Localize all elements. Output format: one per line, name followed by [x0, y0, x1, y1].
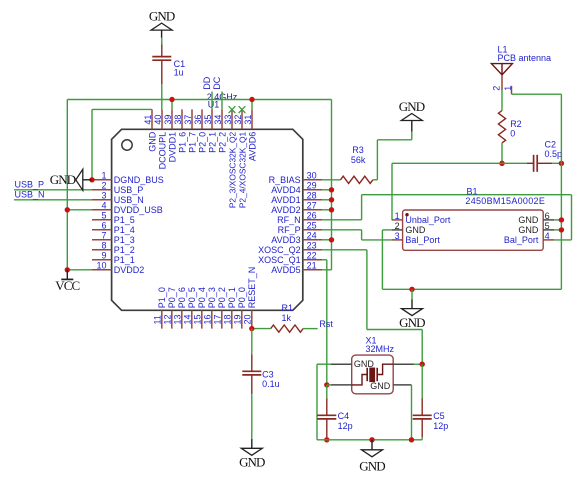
U1 pin 6 (P1_4): [92, 221, 135, 235]
resistor R2: [498, 111, 521, 143]
junction pin 1 DGND_BUS: [89, 177, 94, 182]
U1 pin 24 (AVDD3): [271, 231, 322, 245]
U1 pin 3 (USB_N): [92, 191, 144, 205]
svg-text:1: 1: [101, 171, 106, 181]
U1 pin 36 (P2_0): [193, 109, 208, 152]
svg-text:10: 10: [96, 261, 106, 271]
U1 pin 29 (AVDD4): [271, 181, 322, 195]
svg-text:RF_N: RF_N: [277, 215, 301, 225]
svg-text:P2_2: P2_2: [217, 132, 227, 153]
svg-text:GND: GND: [149, 9, 175, 24]
B1 pin 3 (Bal_Port): [392, 231, 441, 245]
wire AVDD vertical rail: [331, 100, 333, 270]
svg-text:12p: 12p: [338, 421, 353, 431]
svg-text:PCB antenna: PCB antenna: [498, 53, 552, 63]
wire C4 to rail: [326, 437, 328, 440]
svg-text:GND: GND: [359, 459, 385, 474]
B1 pin 2 (GND): [392, 221, 426, 235]
junction pin 39: [169, 97, 174, 102]
U1 pin 34 (P2_2): [213, 109, 228, 152]
wire X1 bottom-right GND: [411, 385, 413, 440]
svg-text:P0_5: P0_5: [187, 287, 197, 308]
wire USB_P: [14, 189, 92, 191]
svg-text:P1_0: P1_0: [157, 287, 167, 308]
svg-text:24: 24: [307, 231, 317, 241]
svg-text:1: 1: [503, 86, 513, 91]
svg-text:11: 11: [153, 315, 163, 324]
svg-text:P0_7: P0_7: [167, 287, 177, 308]
svg-text:4: 4: [101, 201, 106, 211]
wire XOSC_Q2 (pin 23) to X1: [322, 249, 367, 251]
svg-text:DVDD_USB: DVDD_USB: [114, 205, 163, 215]
svg-text:AVDD1: AVDD1: [271, 195, 300, 205]
svg-text:41: 41: [143, 115, 153, 125]
svg-text:P2_0: P2_0: [197, 132, 207, 153]
svg-text:C4: C4: [338, 411, 350, 421]
B1 pin 6 (GND): [518, 211, 554, 225]
wire crystal bottom rail: [317, 439, 422, 441]
junction pin 20: [249, 326, 254, 331]
svg-text:36: 36: [193, 115, 203, 125]
B1 pin 5 (GND): [518, 221, 554, 235]
svg-text:VCC: VCC: [55, 278, 79, 293]
wire AVDD to pin 28 AVDD1: [322, 199, 331, 201]
svg-text:39: 39: [163, 115, 173, 125]
svg-text:12: 12: [163, 314, 173, 324]
svg-text:3: 3: [395, 231, 400, 241]
ground (B1 mid): [399, 289, 425, 330]
wire AVDD to pin 27 AVDD2: [322, 209, 331, 211]
svg-text:R_BIAS: R_BIAS: [269, 175, 301, 185]
svg-text:40: 40: [153, 115, 163, 125]
wire X1 bottom-left stub: [327, 384, 331, 386]
svg-text:P0_1: P0_1: [227, 287, 237, 308]
svg-text:DVDD1: DVDD1: [167, 132, 177, 163]
U1 pin 19 (P0_0): [233, 287, 248, 328]
wire B1 pins 6,5 GND vertical: [560, 94, 562, 289]
U1 pin 17 (P0_2): [213, 287, 228, 328]
svg-text:9: 9: [101, 251, 106, 261]
svg-text:1: 1: [395, 211, 400, 221]
svg-text:DCOUPL: DCOUPL: [157, 132, 167, 170]
svg-text:GND: GND: [147, 131, 157, 152]
svg-text:26: 26: [307, 211, 317, 221]
junction AVDD pin 29: [329, 187, 334, 192]
svg-text:P0_2: P0_2: [217, 287, 227, 308]
svg-text:28: 28: [307, 191, 317, 201]
wire RF_N (pin 26) to B1 pin 4: [322, 219, 361, 221]
svg-text:31: 31: [243, 115, 253, 125]
svg-text:6: 6: [101, 221, 106, 231]
ground top (above C1): [149, 9, 175, 38]
svg-text:20: 20: [243, 314, 253, 324]
U1 pin 7 (P1_3): [92, 231, 135, 245]
svg-text:GND: GND: [405, 225, 426, 235]
U1 pin 39 (DVDD1): [163, 109, 178, 162]
B1 pin 1 (Unbal_Port): [392, 211, 451, 225]
X1 pin GND bottom-right: [370, 381, 411, 391]
wire to pin 4 DVDD_USB: [67, 209, 92, 211]
X1 pin bottom-left (XOSC_Q1): [331, 384, 352, 386]
svg-text:38: 38: [173, 115, 183, 125]
capacitor C5: [413, 399, 449, 438]
svg-text:GND: GND: [518, 215, 539, 225]
svg-text:12p: 12p: [433, 421, 448, 431]
U1 pin 22 (XOSC_Q1): [258, 251, 322, 265]
balun B1 body: [403, 210, 544, 250]
ground (R3): [399, 99, 425, 132]
svg-text:GND: GND: [50, 172, 76, 187]
svg-text:XOSC_Q1: XOSC_Q1: [258, 255, 301, 265]
junction AVDD pin 27: [329, 207, 334, 212]
svg-text:AVDD3: AVDD3: [271, 235, 300, 245]
svg-text:GND: GND: [370, 381, 391, 391]
U1 pin 1 (DGND_BUS): [92, 171, 164, 185]
wire RF to B1 pin 1: [391, 163, 393, 220]
svg-text:37: 37: [183, 115, 193, 125]
svg-text:GND: GND: [399, 99, 425, 114]
U1 pin 2 (USB_P): [92, 181, 143, 195]
svg-text:30: 30: [307, 171, 317, 181]
svg-text:34: 34: [213, 115, 223, 125]
U1 pin 41 (GND): [143, 109, 158, 151]
U1 pin 38 (P1_6): [173, 109, 188, 152]
wire R3 to GND bend: [373, 179, 377, 181]
wire C1 to pin 40 DCOUPL: [161, 84, 163, 109]
svg-text:5: 5: [545, 221, 550, 231]
junction pin 10 / VCC: [65, 267, 70, 272]
svg-text:P1_6: P1_6: [177, 132, 187, 153]
wire B1 pin 2 to GND: [382, 229, 391, 231]
capacitor C4: [317, 399, 352, 438]
svg-text:USB_P: USB_P: [114, 185, 144, 195]
capacitor C2: [527, 140, 562, 172]
U1 pin 8 (P1_2): [92, 241, 135, 255]
svg-text:5: 5: [101, 211, 106, 221]
svg-text:P1_5: P1_5: [114, 215, 135, 225]
svg-text:DGND_BUS: DGND_BUS: [114, 175, 164, 185]
U1 pin 5 (P1_5): [92, 211, 135, 225]
capacitor C1: [152, 45, 185, 85]
U1 pin 18 (P0_1): [223, 287, 238, 328]
wire R_BIAS to R3: [322, 179, 340, 181]
svg-text:14: 14: [183, 314, 193, 324]
svg-text:32: 32: [233, 115, 243, 125]
junction C2 right: [559, 161, 564, 166]
svg-text:AVDD6: AVDD6: [247, 132, 257, 161]
svg-text:35: 35: [203, 115, 213, 125]
svg-text:1k: 1k: [282, 313, 292, 323]
svg-text:8: 8: [101, 241, 106, 251]
wire drop to pin 31 AVDD6: [251, 100, 253, 110]
U1 pin 35 (P2_1): [203, 109, 218, 152]
svg-text:18: 18: [223, 314, 233, 324]
svg-text:Rst: Rst: [319, 319, 333, 329]
wire L1 pin 2 to R2: [501, 90, 503, 111]
svg-text:C5: C5: [433, 411, 445, 421]
svg-text:R3: R3: [352, 145, 364, 155]
svg-text:0.5p: 0.5p: [545, 149, 563, 159]
crystal X1 body: [352, 355, 394, 394]
wire C3 to GND: [251, 394, 253, 439]
U1 pin 13 (P0_6): [173, 287, 188, 328]
wire C2 to GND vertical: [552, 162, 561, 164]
U1 pin 11 (P1_0): [153, 287, 168, 328]
svg-text:19: 19: [233, 314, 243, 324]
svg-text:R1: R1: [282, 303, 294, 313]
svg-text:29: 29: [307, 181, 317, 191]
svg-text:U1: U1: [208, 99, 220, 109]
svg-text:P0_4: P0_4: [197, 287, 207, 308]
svg-text:22: 22: [307, 251, 317, 261]
wire GND to C1: [161, 38, 163, 45]
svg-text:P2_1: P2_1: [207, 132, 217, 153]
svg-text:C3: C3: [262, 369, 274, 379]
wire AVDD to pin 29 AVDD4: [322, 189, 331, 191]
svg-text:0.1u: 0.1u: [262, 379, 280, 389]
U1 pin 14 (P0_5): [183, 287, 198, 328]
wire VDD top rail: [67, 99, 331, 101]
svg-text:7: 7: [101, 231, 106, 241]
svg-text:6: 6: [545, 211, 550, 221]
svg-text:USB_N: USB_N: [114, 195, 144, 205]
svg-text:P1_1: P1_1: [114, 255, 135, 265]
U1 pin 4 (DVDD_USB): [92, 201, 163, 215]
wire pin 41 GND horizontal: [92, 108, 152, 110]
junction rail X1 case: [409, 437, 414, 442]
svg-text:32MHz: 32MHz: [366, 344, 395, 354]
U1 pin 12 (P0_7): [163, 287, 178, 328]
svg-text:DC: DC: [212, 76, 222, 89]
wire XOSC_Q2 to C5: [421, 364, 423, 398]
svg-text:P1_4: P1_4: [114, 225, 135, 235]
junction R2/RF: [499, 161, 504, 166]
B1 pin 4 (Bal_Port): [504, 231, 554, 245]
resistor R1: [271, 303, 303, 332]
junction GND mid: [409, 287, 414, 292]
wire AVDD to pin 24 AVDD3: [322, 239, 331, 241]
svg-text:Bal_Port: Bal_Port: [504, 235, 539, 245]
svg-text:2: 2: [395, 221, 400, 231]
ground (C3): [239, 439, 265, 470]
svg-text:P2_4/XOSC32K_Q1: P2_4/XOSC32K_Q1: [237, 131, 247, 208]
U1 pin 37 (P1_7): [183, 109, 198, 152]
U1 pin 25 (RF_P): [278, 221, 323, 235]
U1 pin 9 (P1_1): [92, 251, 135, 265]
svg-text:P0_0: P0_0: [237, 287, 247, 308]
X1 pin top-right (XOSC_Q2): [393, 363, 414, 365]
svg-text:2: 2: [491, 86, 501, 91]
svg-text:Unbal_Port: Unbal_Port: [405, 215, 451, 225]
junction pin 4: [65, 207, 70, 212]
U1 pin 21 (AVDD5): [271, 261, 322, 275]
U1 pin 31 (AVDD6): [243, 109, 258, 161]
wire VCC vertical drop: [66, 100, 68, 270]
wire RF node rail: [392, 162, 527, 164]
antenna L1 (PCB antenna): [491, 45, 551, 95]
no-connect cross pin 32: [239, 106, 246, 113]
junction X1/C5: [420, 362, 425, 367]
svg-text:13: 13: [173, 314, 183, 324]
svg-text:33: 33: [223, 115, 233, 125]
wire drop to pin 39 DVDD1: [171, 100, 173, 110]
U1 pin 30 (R_BIAS): [269, 171, 323, 185]
wire pin 41 GND vertical: [91, 109, 93, 179]
IC U1 body (CC2540 QFN outline): [112, 129, 303, 310]
no-connect cross pin 33: [229, 106, 236, 113]
wire X1 top-left GND: [317, 363, 331, 365]
svg-text:GND: GND: [518, 225, 539, 235]
resistor R3: [341, 145, 373, 183]
svg-text:GND: GND: [354, 359, 375, 369]
svg-text:GND: GND: [399, 315, 425, 330]
svg-text:15: 15: [193, 314, 203, 324]
U1 pin 10 (DVDD2): [92, 261, 144, 275]
U1 pin 33 (P2_3/XOSC32K_Q2): [223, 109, 238, 208]
U1 pin 15 (P0_4): [193, 287, 208, 328]
wire X1 top-right to C5: [414, 363, 422, 365]
svg-text:56k: 56k: [351, 155, 366, 165]
U1 pin 40 (DCOUPL): [153, 109, 168, 169]
svg-text:DVDD2: DVDD2: [114, 265, 145, 275]
wire L1 pin 1 to GND net: [512, 93, 562, 95]
svg-text:RF_P: RF_P: [278, 225, 301, 235]
svg-text:1u: 1u: [174, 68, 184, 78]
wire RF_P (pin 25) to B1 pin 3: [322, 229, 361, 231]
ground (crystal rail): [359, 440, 385, 474]
wire XOSC_Q1 (pin 22) to X1: [322, 259, 327, 261]
svg-text:17: 17: [213, 314, 223, 324]
svg-text:B1: B1: [467, 186, 478, 196]
X1 crystal element: [352, 364, 394, 385]
svg-text:RESET_N: RESET_N: [247, 267, 257, 309]
svg-text:DD: DD: [202, 76, 212, 89]
svg-text:P1_2: P1_2: [114, 245, 135, 255]
svg-text:AVDD5: AVDD5: [271, 265, 300, 275]
wire DC (pin 34): [221, 92, 223, 110]
U1 pin 16 (P0_3): [203, 287, 218, 328]
U1 pin 20 (RESET_N): [243, 267, 258, 329]
wire R2 to RF node: [501, 143, 503, 163]
svg-text:P0_3: P0_3: [207, 287, 217, 308]
svg-text:Bal_Port: Bal_Port: [405, 235, 440, 245]
svg-text:21: 21: [307, 261, 317, 271]
svg-text:25: 25: [307, 221, 317, 231]
wire to pin 10 DVDD2: [67, 269, 92, 271]
wire DD (pin 35): [211, 92, 213, 110]
wire C5 to rail: [421, 437, 423, 440]
wire AVDD to pin 21 AVDD5: [322, 269, 331, 271]
U1 pin 23 (XOSC_Q2): [258, 241, 322, 255]
junction X1 bottom-left: [324, 382, 329, 387]
junction AVDD pin 28: [329, 197, 334, 202]
junction AVDD pin 24: [329, 237, 334, 242]
U1 pin 27 (AVDD2): [271, 201, 322, 215]
svg-text:R2: R2: [510, 119, 522, 129]
svg-text:27: 27: [307, 201, 317, 211]
svg-text:USB_P: USB_P: [15, 180, 45, 190]
U1 pin 26 (RF_N): [277, 211, 322, 225]
capacitor C3: [242, 354, 279, 394]
svg-text:23: 23: [307, 241, 317, 251]
junction B1 pin 6: [559, 217, 564, 222]
junction B1 pin 5: [559, 227, 564, 232]
U1 pin 28 (AVDD1): [271, 191, 322, 205]
svg-text:C2: C2: [545, 140, 557, 150]
junction C4: [324, 437, 329, 442]
ground left (DGND_BUS pin 1): [50, 169, 92, 190]
wire R1 to Rst: [303, 328, 318, 330]
junction rail GND stem: [369, 437, 374, 442]
svg-text:3: 3: [101, 191, 106, 201]
junction pin 31: [249, 97, 254, 102]
svg-text:4: 4: [545, 231, 550, 241]
svg-text:USB_N: USB_N: [15, 190, 45, 200]
svg-text:P1_3: P1_3: [114, 235, 135, 245]
X1 pin GND top-left: [331, 359, 374, 369]
wire XOSC_Q1 to C4: [326, 385, 328, 399]
svg-text:XOSC_Q2: XOSC_Q2: [258, 245, 301, 255]
svg-text:GND: GND: [239, 455, 265, 470]
svg-text:16: 16: [203, 314, 213, 324]
svg-text:2: 2: [101, 181, 106, 191]
svg-text:2450BM15A0002E: 2450BM15A0002E: [465, 196, 545, 206]
svg-text:AVDD2: AVDD2: [271, 205, 300, 215]
wire RESET to C3: [251, 329, 253, 355]
svg-text:P0_6: P0_6: [177, 287, 187, 308]
svg-text:0: 0: [510, 129, 515, 139]
svg-text:P1_7: P1_7: [187, 132, 197, 153]
wire pin 20 RESET_N to R1: [252, 328, 271, 330]
power flag VCC: [55, 270, 79, 293]
wire USB_N: [14, 199, 92, 201]
svg-text:P2_3/XOSC32K_Q2: P2_3/XOSC32K_Q2: [227, 131, 237, 208]
svg-text:AVDD4: AVDD4: [271, 185, 300, 195]
U1 pin 32 (P2_4/XOSC32K_Q1): [233, 109, 248, 208]
